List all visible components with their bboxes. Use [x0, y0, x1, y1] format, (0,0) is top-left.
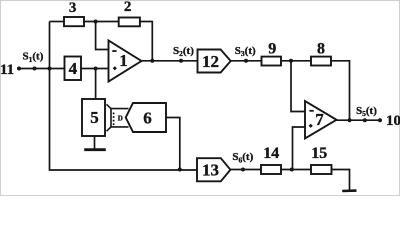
svg-text:7: 7 [315, 110, 324, 129]
svg-text:1: 1 [119, 51, 128, 70]
svg-text:9: 9 [268, 40, 276, 57]
svg-text:12: 12 [202, 52, 219, 71]
svg-text:10: 10 [386, 113, 400, 129]
svg-text:S5(t): S5(t) [356, 105, 377, 118]
svg-text:D: D [118, 114, 123, 122]
svg-text:S3(t): S3(t) [235, 45, 256, 58]
svg-text:13: 13 [202, 161, 219, 180]
svg-text:4: 4 [69, 59, 78, 78]
svg-text:15: 15 [311, 145, 327, 162]
svg-text:14: 14 [263, 145, 279, 162]
svg-text:5: 5 [90, 108, 99, 127]
svg-text:8: 8 [317, 40, 325, 57]
svg-text:6: 6 [143, 109, 152, 128]
svg-text:11: 11 [0, 62, 14, 78]
svg-text:3: 3 [69, 0, 77, 16]
svg-text:S6(t): S6(t) [232, 151, 253, 164]
svg-text:2: 2 [124, 0, 132, 15]
svg-text:S1(t): S1(t) [23, 51, 44, 64]
svg-text:S2(t): S2(t) [173, 45, 194, 58]
